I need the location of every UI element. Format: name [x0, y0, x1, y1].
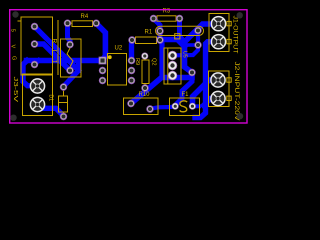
- wire: J2 top pad to F1 right pad: [193, 80, 219, 106]
- relay RL1 body: [21, 17, 53, 75]
- wire: R1 left pad down to U2 right top: [129, 40, 135, 61]
- terminal J2 screw pads: [211, 73, 225, 87]
- svg-text:D1: D1: [48, 95, 54, 102]
- resistor R4 pads: [64, 20, 71, 27]
- resistor R1 leads: [132, 39, 135, 41]
- diode D1 body: [59, 96, 68, 112]
- wire: big diagonal R10 left pad to via3 vertical: [131, 78, 192, 104]
- transistor Q2 pads: [168, 51, 177, 60]
- relay RL1 side line: [57, 20, 59, 75]
- wire: J2 bottom pad diagonal: [204, 99, 219, 106]
- resistor R9 pads: [142, 53, 148, 59]
- wire: via2 link left: [186, 43, 198, 47]
- via2: [195, 42, 202, 49]
- wire: R4 right pad down to U2 pin1: [96, 24, 105, 60]
- svg-text:R10: R10: [139, 92, 151, 98]
- wire: J1 bottom pad long vertical down right side: [195, 42, 219, 118]
- diode D1 pads: [60, 84, 67, 91]
- wire: relay pad2 to U4 bottom pad diagonal: [35, 44, 71, 71]
- via3: [189, 69, 196, 76]
- wire: R1 right pad to J1 net vertical: [160, 40, 184, 47]
- wire: H1 thick horizontal to U2 pin1: [27, 58, 102, 64]
- wire: R10 right pad to F1 left pad: [150, 106, 175, 109]
- diode D1 leads: [63, 91, 65, 96]
- resistor R9 leads: [144, 57, 146, 61]
- terminal J3 screw pads: [30, 79, 44, 93]
- wire: J3 bottom pad to D1 bottom pad: [38, 105, 64, 116]
- fuse F1 squiggle: [180, 101, 188, 112]
- wire: R1 right pad down to big diagonal corner: [160, 40, 162, 76]
- IC U2 pin1 square pad: [99, 57, 106, 64]
- terminal J2 body: [209, 71, 230, 107]
- board outline: [10, 10, 247, 123]
- svg-text:U5: U5: [182, 51, 188, 58]
- diode stadium body: [156, 26, 204, 35]
- wire: R3 right pad down joining J1 net: [180, 19, 185, 42]
- diode D1 band: [59, 102, 68, 104]
- svg-text:R9: R9: [134, 58, 140, 65]
- wire: via3 down zigzag to F1 left pad: [175, 73, 192, 107]
- resistor R1 pads: [129, 37, 136, 44]
- fuse F1 pads: [172, 103, 178, 109]
- mounting hole bottom-left: [10, 115, 16, 121]
- svg-text:F1: F1: [182, 92, 190, 98]
- svg-text:RL1: RL1: [51, 39, 58, 64]
- wire: R4 left pad down to U4 top pad: [68, 23, 71, 44]
- relay RL1 pads: [31, 23, 38, 30]
- terminal J1 screw pads: [211, 17, 225, 31]
- resistor R3 body: [157, 16, 176, 21]
- terminal J1 pin squares: [227, 21, 231, 25]
- svg-text:G: G: [10, 56, 16, 60]
- resistor R10 pads: [128, 100, 135, 107]
- terminal J2 pin squares: [227, 78, 231, 82]
- resistor R10 body: [124, 98, 159, 115]
- svg-text:U2: U2: [115, 46, 123, 52]
- stadium diode pads: [157, 28, 164, 35]
- resistor R3 leads: [154, 18, 157, 20]
- IC U2 pin1 mark: [108, 55, 112, 59]
- wire: relay pad3 stub up to H1: [35, 60, 39, 64]
- svg-text:R4: R4: [81, 14, 89, 20]
- terminal J3 body: [23, 74, 53, 116]
- resistor R9 body: [142, 60, 149, 84]
- resistor R1 body: [136, 37, 157, 44]
- fuse F1 body: [170, 98, 200, 116]
- resistor R4 leads: [68, 22, 72, 24]
- wire: relay pad1 long diagonal through H1 to D1 top pad: [35, 27, 79, 87]
- transistor Q2 body: [164, 48, 181, 84]
- IC U2 round pads: [99, 67, 106, 74]
- varistor U4 pads: [67, 41, 74, 48]
- mounting hole bottom-right: [237, 113, 243, 119]
- wire: J1 top pad to via3: [185, 24, 219, 73]
- mounting hole top-left: [12, 11, 18, 17]
- wire: R9 bottom stub: [143, 88, 147, 91]
- mounting hole top-right: [237, 12, 243, 18]
- svg-text:J2-INPUT-220V: J2-INPUT-220V: [233, 62, 240, 122]
- resistor R4 body: [72, 21, 93, 27]
- varistor U4 body: [61, 39, 82, 77]
- terminal J1 body: [209, 14, 229, 52]
- IC U2 body: [108, 54, 127, 86]
- wire: R3 left pad to stadium left / R1 right: [154, 19, 161, 41]
- svg-text:R1: R1: [145, 30, 153, 36]
- wire: stadium right pad down via2 diag to Q2 top: [173, 31, 199, 56]
- transistor Q2 inner line: [167, 48, 169, 84]
- svg-text:J1-OUTPUT: J1-OUTPUT: [232, 16, 239, 54]
- jumper square pin near Q2: [175, 34, 180, 39]
- svg-text:J3-5V: J3-5V: [12, 77, 18, 103]
- wire: branch H1 down joining diagonal vertex: [76, 61, 81, 71]
- svg-text:Q2: Q2: [151, 58, 157, 65]
- relay pin1 tick: [18, 20, 22, 22]
- wire: F1 right pad stub to vertical: [193, 104, 200, 108]
- wire: H1 left wrap down to J3 top pad: [23, 61, 38, 86]
- resistor R3 pads: [150, 15, 157, 22]
- varistor U4 inner link: [67, 48, 73, 67]
